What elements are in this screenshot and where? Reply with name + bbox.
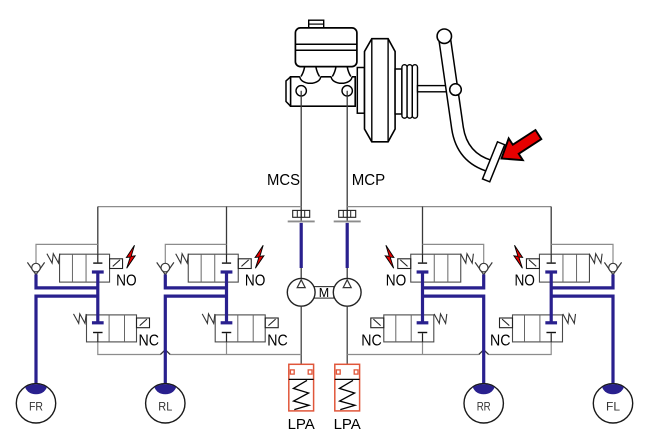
accumulator LPA 2 [335, 364, 360, 411]
damper orifice MCP [339, 210, 356, 217]
pedal arm top circle [437, 29, 451, 43]
wire blue to wheel RL [165, 296, 226, 387]
damper orifice MCS [293, 210, 310, 217]
wire blue check valve bypass FL [611, 274, 614, 289]
wire MCS from master cylinder [300, 91, 302, 221]
svg-text:MCS: MCS [267, 172, 300, 189]
wire blue NO outlet RL [225, 272, 228, 323]
crossover hop right [479, 350, 489, 355]
spring of NC valve RR [434, 314, 447, 324]
damper plate MCS [288, 220, 315, 222]
wire pump 1 to LPA [300, 306, 302, 364]
brake pedal arm [444, 33, 490, 166]
wire blue bypass horizontal FR [36, 286, 98, 289]
wire branch to check valve FL [551, 244, 613, 263]
wire blue bypass horizontal RR [423, 286, 484, 289]
svg-text:LPA: LPA [288, 416, 315, 433]
svg-text:NC: NC [267, 332, 288, 349]
accumulator LPA 1 [289, 364, 314, 411]
wire NC3 outlet [422, 342, 424, 355]
wire rail drop to NO valve RL [226, 207, 228, 255]
motor box M [314, 286, 334, 300]
master cylinder body [291, 77, 356, 106]
red arrow pointing at pedal [494, 124, 545, 170]
reservoir port bell 1 [301, 67, 320, 77]
wire blue MCP to pump [346, 223, 349, 268]
solenoid coil of NC valve RL [265, 318, 278, 328]
spring of NC valve FR [74, 314, 87, 324]
wire MCP pump inlet [346, 268, 348, 279]
check valve FR [27, 262, 44, 274]
solenoid valve NC RR [384, 315, 434, 342]
svg-text:FR: FR [29, 399, 43, 413]
wire top rail right (MCP) [347, 206, 551, 208]
solenoid coil of NO valve FL [526, 259, 539, 269]
wire MCS pump inlet [300, 268, 302, 279]
wire branch to check valve RR [423, 244, 484, 263]
svg-text:NO: NO [116, 272, 136, 289]
wire blue NO outlet FL [550, 272, 553, 323]
wire NC2 outlet [226, 342, 228, 355]
svg-text:NO: NO [386, 272, 407, 289]
wire blue bypass horizontal RL [165, 286, 226, 289]
lightning bolt NO FR [126, 245, 135, 268]
master cylinder reservoir cap [309, 20, 324, 28]
solenoid coil of NC valve FR [137, 318, 150, 328]
spring of NO valve FR [47, 254, 60, 263]
lightning bolt NO RR [385, 245, 394, 268]
svg-text:NC: NC [361, 332, 382, 349]
wheel cylinder FR [16, 376, 55, 423]
wire blue check valve bypass RL [164, 274, 167, 289]
pump 1 [287, 278, 315, 306]
brake booster back plate [357, 68, 364, 114]
spring of NC valve FL [563, 314, 576, 324]
master cylinder reservoir [295, 28, 357, 67]
master cylinder outlet port MCS [296, 86, 306, 96]
reservoir port skirt 2 [331, 75, 352, 83]
pump 2 [333, 278, 361, 306]
wire bottom rail right [347, 342, 551, 355]
wire branch to check valve FR [36, 244, 98, 263]
svg-text:M: M [319, 286, 329, 300]
check valve RR [475, 262, 492, 274]
svg-text:LPA: LPA [334, 416, 361, 433]
solenoid coil of NO valve FR [110, 259, 123, 269]
solenoid valve NC FL [513, 315, 563, 342]
master cylinder end cap [286, 77, 291, 106]
lightning bolt NO FL [514, 245, 523, 268]
solenoid coil of NO valve RL [238, 259, 251, 269]
svg-text:RR: RR [477, 399, 491, 413]
wire blue to wheel FR [36, 296, 98, 387]
pedal pad [483, 142, 505, 182]
lightning bolt NO RL [255, 245, 264, 268]
wire rail drop to NO valve RR [422, 207, 424, 255]
wheel cylinder RR [464, 376, 503, 423]
solenoid valve NO RR [411, 254, 461, 282]
wire pump 2 to LPA [346, 306, 348, 364]
reservoir port bell 2 [332, 67, 351, 77]
solenoid valve NO RL [188, 254, 238, 282]
wire blue check valve bypass FR [34, 274, 37, 289]
svg-text:NO: NO [245, 272, 266, 289]
wire blue bypass horizontal FL [551, 286, 613, 289]
wire rail drop to NO valve FL [550, 207, 552, 255]
wheel cylinder RL [146, 376, 185, 423]
wire rail drop to NO valve FR [97, 207, 99, 255]
booster rings [402, 65, 418, 119]
wire blue check valve bypass RR [482, 274, 485, 289]
solenoid valve NC FR [87, 315, 137, 342]
wire blue MCS to pump [300, 223, 303, 268]
spring of NC valve RL [202, 314, 215, 324]
solenoid coil of NC valve RR [371, 318, 384, 328]
wire blue NO outlet FR [96, 272, 99, 323]
solenoid coil of NC valve FL [500, 318, 513, 328]
spring of NO valve RR [461, 254, 474, 263]
wire blue NO outlet RR [421, 272, 424, 323]
solenoid coil of NO valve RR [398, 259, 411, 269]
pedal pivot circle [450, 84, 462, 96]
spring of NO valve FL [589, 254, 602, 263]
brake booster shell [365, 39, 396, 142]
booster step block [395, 69, 402, 114]
svg-text:MCP: MCP [352, 172, 386, 189]
reservoir port skirt 1 [300, 75, 321, 83]
svg-text:RL: RL [158, 399, 172, 413]
wheel cylinder FL [593, 376, 632, 423]
wire blue to wheel FL [551, 296, 613, 387]
check valve FL [604, 262, 621, 274]
svg-text:NC: NC [490, 332, 511, 349]
crossover hop left [160, 350, 170, 355]
wire MCP from master cylinder [346, 91, 348, 221]
svg-text:NO: NO [514, 272, 535, 289]
master cylinder outlet port MCP [342, 86, 352, 96]
wire top rail left (MCS) [98, 206, 301, 208]
wire bottom rail left [98, 342, 301, 355]
damper plate MCP [334, 220, 361, 222]
spring of NO valve RL [176, 254, 189, 263]
wire branch to check valve RL [165, 244, 226, 263]
solenoid valve NO FR [60, 254, 110, 282]
wire blue to wheel RR [423, 296, 484, 387]
svg-text:NC: NC [139, 332, 160, 349]
check valve RL [157, 262, 174, 274]
solenoid valve NO FL [539, 254, 589, 282]
svg-text:FL: FL [606, 399, 620, 413]
pedal push rod [418, 86, 457, 92]
solenoid valve NC RL [215, 315, 265, 342]
